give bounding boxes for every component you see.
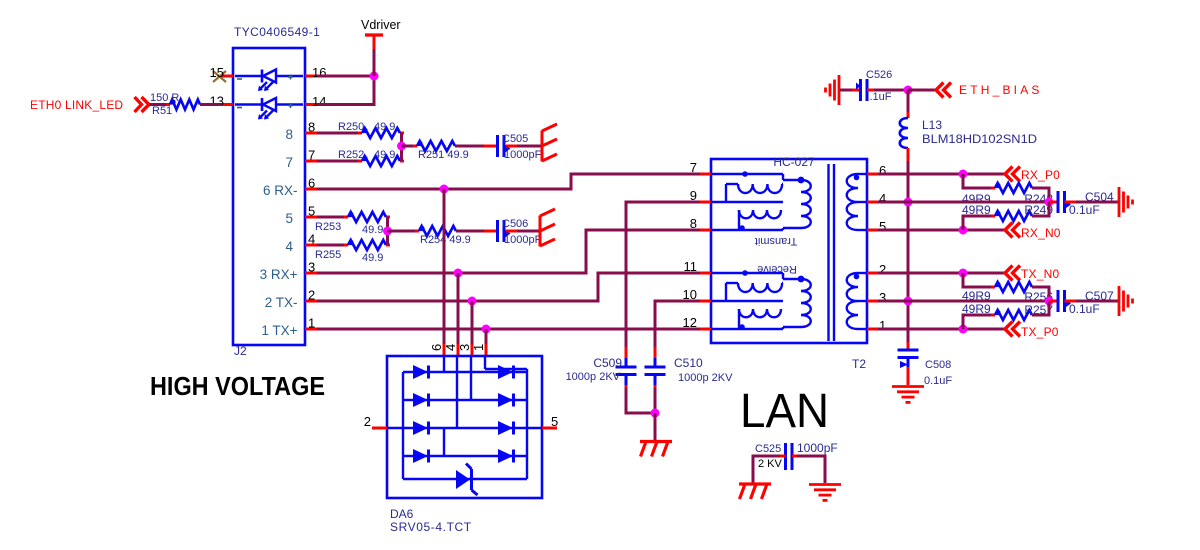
T2 pin 10 stub	[700, 300, 711, 303]
svg-text:1: 1	[471, 344, 486, 351]
T2 pin 4 right number	[879, 191, 886, 206]
svg-text:1000p 2KV: 1000p 2KV	[678, 372, 733, 384]
resistor R248	[991, 183, 1036, 193]
transformer T2 transmit winding	[711, 171, 811, 247]
transformer core lines	[829, 164, 835, 341]
pin 8 number	[308, 120, 315, 135]
svg-text:1 TX+: 1 TX+	[261, 323, 297, 338]
T2 pin 11 stub	[700, 272, 711, 275]
wire C510 bottom	[654, 385, 657, 413]
label R249	[1024, 203, 1053, 217]
label HC-027	[773, 155, 815, 169]
DA6 right diodes	[498, 365, 514, 463]
DA6 pin 2 number	[364, 414, 371, 429]
wire ground to C526	[840, 89, 860, 92]
DA6 pin 5 number	[551, 414, 558, 429]
svg-text:1000pF: 1000pF	[504, 149, 542, 161]
port chevron ETH_BIAS	[936, 83, 951, 98]
wire TX+ row	[317, 328, 700, 331]
junction C504	[1045, 198, 1054, 207]
port label TX_P0	[1021, 325, 1059, 339]
wire junction to L13	[907, 90, 910, 118]
wire R249 to pin4 line	[1032, 202, 1049, 216]
label R252 value 49.9	[374, 149, 395, 161]
DA6 internal rails	[387, 357, 542, 479]
wire C526 to junction	[867, 89, 908, 92]
svg-text:R51: R51	[152, 105, 172, 117]
pin 1 number	[308, 316, 315, 331]
DA6 pin 1 number	[471, 344, 486, 351]
junction bias bus pin4	[904, 198, 913, 207]
wire C525 right	[792, 456, 825, 483]
port chevron RX_P0	[1005, 167, 1020, 182]
label C525 2KV	[758, 458, 783, 470]
transformer T2 receive winding	[711, 263, 811, 330]
label C525	[755, 443, 781, 455]
J2 internal pin label 1 TX+	[261, 323, 297, 338]
label DA6	[390, 507, 414, 521]
svg-text:49.9: 49.9	[374, 149, 395, 161]
T2 pin 9 stub	[700, 201, 711, 204]
LED D1 internal line	[235, 75, 303, 78]
wire junction to R257	[963, 315, 995, 329]
wire junction up	[373, 49, 376, 76]
inductor L13	[900, 118, 908, 148]
T2 pin 8 stub	[700, 229, 711, 232]
svg-text:1: 1	[308, 316, 315, 331]
junction Vdriver	[370, 72, 379, 81]
wire pin16 to junction	[317, 75, 374, 78]
chassis ground C509/C510	[640, 442, 672, 457]
label TYC0406549-1	[234, 25, 320, 39]
transformer T2 body	[711, 159, 867, 343]
wire RX- row	[317, 174, 700, 189]
svg-text:C526: C526	[866, 69, 892, 81]
svg-text:7: 7	[285, 155, 293, 170]
label C507	[1085, 289, 1114, 303]
port chevron ETH0 LINK_LED	[135, 97, 150, 112]
pin 14 number	[312, 94, 326, 109]
LED D1	[258, 70, 276, 92]
text HIGH VOLTAGE	[150, 371, 325, 401]
J2 internal pin label 2 TX-	[265, 295, 298, 310]
wire DA6 pin6 vertical	[443, 189, 446, 357]
resistor R254	[415, 226, 460, 236]
pin 13 number	[210, 94, 224, 109]
svg-text:LAN: LAN	[740, 385, 829, 438]
svg-text:2: 2	[879, 262, 886, 277]
svg-text:11: 11	[684, 259, 698, 274]
pin 8 stub	[305, 132, 317, 135]
label BLM18HD102SN1D	[922, 132, 1037, 146]
capacitor C506	[498, 220, 511, 242]
polarity minus mark row13	[237, 107, 242, 109]
wire T2 pin4 to C504	[878, 201, 1054, 204]
label 150 R	[150, 92, 179, 104]
label C508 value 0.1uF	[924, 375, 952, 387]
svg-text:L13: L13	[922, 118, 942, 132]
wire T2 pin9 to C509	[626, 202, 700, 358]
no-connect X pin 15	[213, 71, 226, 82]
wire R253/R255 join	[386, 217, 389, 245]
pin 3 stub	[305, 272, 317, 275]
resistor R249	[991, 211, 1036, 221]
T2 pin 11 number	[684, 259, 698, 274]
polarity plus mark row16	[288, 75, 293, 80]
DA6 zener diode	[456, 464, 478, 496]
svg-text:5: 5	[879, 219, 886, 234]
svg-text:3: 3	[879, 290, 886, 305]
svg-text:C506: C506	[502, 218, 528, 230]
wire pin5 to R253	[317, 216, 348, 219]
wire T2 pin6 to RX_P0	[878, 173, 1005, 176]
wire R250/R252 join	[400, 133, 403, 161]
DA6 left diodes	[413, 365, 429, 463]
port chevron TX_N0	[1005, 266, 1020, 281]
label R257 value 49R9	[962, 302, 991, 316]
resistor R257	[991, 310, 1036, 320]
junction RX+ to DA6	[454, 269, 463, 278]
pin 6 stub	[305, 188, 317, 191]
label R248	[1024, 192, 1053, 206]
wire pin7 to R252	[317, 160, 362, 163]
pin 14 stub	[305, 103, 317, 106]
wire junction to R254	[388, 230, 420, 233]
svg-text:HIGH VOLTAGE: HIGH VOLTAGE	[150, 371, 325, 401]
junction RX_P0	[959, 170, 968, 179]
T2 pin 6 right number	[879, 163, 886, 178]
svg-text:BLM18HD102SN1D: BLM18HD102SN1D	[922, 132, 1037, 146]
svg-text:2 KV: 2 KV	[758, 458, 783, 470]
svg-text:6: 6	[429, 344, 444, 351]
svg-text:TYC0406549-1: TYC0406549-1	[234, 25, 320, 39]
svg-text:2: 2	[364, 414, 371, 429]
pin 16 stub	[305, 75, 317, 78]
T2 pin 6 right stub	[867, 173, 878, 176]
wire T2 pin10 to C510	[655, 301, 700, 358]
svg-text:ETH_BIAS: ETH_BIAS	[959, 83, 1043, 97]
wire R254 to C506	[456, 230, 497, 233]
transformer T2 secondary winding bottom	[847, 273, 867, 329]
label R251 49.9	[418, 149, 469, 161]
capacitor C504	[1049, 191, 1076, 213]
label R254 49.9	[420, 234, 471, 246]
diode array DA6 body	[387, 356, 542, 498]
text LAN	[740, 385, 829, 438]
svg-text:Receive: Receive	[757, 263, 797, 275]
resistor R253	[344, 212, 390, 222]
port chevron RX_N0	[1005, 223, 1020, 238]
svg-text:15: 15	[210, 65, 224, 80]
junction TX- to DA6	[468, 297, 477, 306]
port chevron TX_P0	[1005, 322, 1020, 337]
junction RX_N0	[959, 226, 968, 235]
earth ground C508	[892, 387, 924, 403]
T2 pin 2 right stub	[867, 272, 878, 275]
svg-text:4: 4	[308, 232, 315, 247]
T2 pin 7 number	[690, 160, 697, 175]
T2 pin 1 right stub	[867, 328, 878, 331]
wire T2 pin2 to TX_N0	[878, 272, 1005, 275]
svg-text:13: 13	[210, 94, 224, 109]
pin 1 stub	[305, 328, 317, 331]
label C504	[1085, 190, 1114, 204]
svg-text:1000p 2KV: 1000p 2KV	[566, 371, 621, 383]
T2 pin 4 right stub	[867, 201, 878, 204]
label C506	[502, 218, 528, 230]
label C526	[866, 69, 892, 81]
label C505	[502, 133, 528, 145]
junction ETH_BIAS	[904, 86, 913, 95]
svg-text:R252: R252	[338, 149, 364, 161]
J2 internal pin label 8	[285, 127, 293, 142]
svg-text:49R9: 49R9	[962, 302, 991, 316]
svg-text:1000pF: 1000pF	[504, 234, 542, 246]
junction C507	[1045, 297, 1054, 306]
pin 2 stub	[305, 300, 317, 303]
svg-text:6: 6	[879, 163, 886, 178]
resistor R51	[166, 99, 204, 109]
chassis ground C525	[739, 484, 771, 499]
svg-text:C510: C510	[674, 356, 703, 370]
port label RX_P0	[1021, 168, 1060, 182]
junction TX_P0	[959, 325, 968, 334]
svg-text:150 R: 150 R	[150, 92, 179, 104]
label C504 value 0.1uF	[1069, 203, 1100, 217]
label R253 value 49.9	[362, 224, 383, 236]
T2 pin 5 right number	[879, 219, 886, 234]
J2 internal pin label 6 RX-	[263, 183, 298, 198]
label C510 value 1000p 2KV	[678, 372, 733, 384]
port label TX_N0	[1021, 267, 1059, 281]
wire pin8 to R250	[317, 132, 362, 135]
svg-text:7: 7	[308, 148, 315, 163]
label R51	[152, 105, 172, 117]
wire port to R51	[150, 103, 171, 106]
wire T2 pin3 to C507	[878, 300, 1054, 303]
junction bias bus pin3	[904, 297, 913, 306]
chassis ground C505	[542, 124, 557, 162]
label Vdriver	[361, 18, 401, 32]
J2 internal pin label 4	[285, 239, 293, 254]
svg-text:49.9: 49.9	[362, 252, 383, 264]
power symbol Vdriver	[365, 35, 383, 49]
svg-text:ETH0 LINK_LED: ETH0 LINK_LED	[30, 98, 123, 112]
svg-text:DA6: DA6	[390, 507, 414, 521]
DA6 pin 2 stub	[372, 427, 387, 430]
svg-text:R250: R250	[338, 121, 364, 133]
svg-text:T2: T2	[852, 357, 866, 371]
LED D2 internal line	[235, 103, 303, 106]
polarity plus mark row14	[288, 103, 293, 108]
DA6 pin 5 stub	[542, 427, 557, 430]
J2 internal pin label 3 RX+	[260, 267, 298, 282]
capacitor C526	[856, 79, 867, 101]
label R257	[1024, 303, 1053, 317]
svg-text:14: 14	[312, 94, 326, 109]
svg-text:3: 3	[308, 260, 315, 275]
svg-text:8: 8	[308, 120, 315, 135]
svg-text:2: 2	[308, 288, 315, 303]
svg-text:5: 5	[308, 204, 315, 219]
wire junction to R249	[963, 216, 995, 230]
port label RX_N0	[1021, 226, 1061, 240]
label SRV05-4.TCT	[390, 520, 472, 534]
earth ground C525	[809, 485, 841, 501]
svg-text:49R9: 49R9	[962, 203, 991, 217]
label C526 value .1uF	[870, 91, 892, 103]
wire C509 bottom	[626, 385, 655, 413]
T2 pin 10 number	[683, 287, 697, 302]
J2 internal pin label 5	[285, 211, 293, 226]
svg-text:2 TX-: 2 TX-	[265, 295, 298, 310]
chassis ground C506	[540, 209, 555, 247]
wire L13 to bias bus	[907, 148, 910, 342]
wire C506 to ground	[506, 230, 540, 233]
pin 6 number	[308, 176, 315, 191]
svg-text:Transmit: Transmit	[755, 235, 797, 247]
svg-text:5: 5	[551, 414, 558, 429]
T2 pin 3 right stub	[867, 300, 878, 303]
svg-text:0.1uF: 0.1uF	[1069, 203, 1100, 217]
pin 5 stub	[305, 216, 317, 219]
wire RX+ row	[317, 230, 700, 273]
capacitor C525	[786, 443, 793, 470]
pin 4 stub	[305, 244, 317, 247]
pin 3 number	[308, 260, 315, 275]
junction C509/C510 ground	[651, 409, 660, 418]
svg-text:RX_P0: RX_P0	[1021, 168, 1060, 182]
wire C505 to ground	[506, 145, 542, 148]
DA6 pin 4 number	[443, 344, 458, 351]
wire DA6 pin1 vertical	[485, 329, 488, 357]
wire junction to R256	[963, 273, 995, 287]
wire T2 pin5 to RX_N0	[878, 229, 1005, 232]
svg-text:0.1uF: 0.1uF	[1069, 302, 1100, 316]
wire DA6 pin3 vertical	[471, 301, 474, 357]
label R250	[338, 121, 364, 133]
svg-text:3 RX+: 3 RX+	[260, 267, 298, 282]
wire junction to R251	[402, 145, 418, 148]
wire R256 to pin3 line	[1032, 287, 1049, 301]
wire C525 left	[753, 456, 786, 483]
label R255	[315, 249, 341, 261]
capacitor C505	[498, 135, 511, 157]
wire TX- row	[317, 273, 700, 301]
wire pin14 jog	[317, 76, 374, 105]
wire C507 to ground	[1076, 300, 1118, 303]
svg-text:8: 8	[285, 127, 293, 142]
svg-text:HC-027: HC-027	[773, 155, 815, 169]
svg-text:6 RX-: 6 RX-	[263, 183, 298, 198]
svg-text:R255: R255	[315, 249, 341, 261]
label R248 value 49R9	[962, 192, 991, 206]
pin 13 stub	[222, 103, 233, 106]
junction B	[383, 227, 392, 236]
T2 pin 7 stub	[700, 173, 711, 176]
label C525 value 1000pF	[797, 441, 838, 455]
capacitor C510	[645, 358, 666, 385]
polarity minus mark row15	[237, 78, 242, 80]
T2 pin 12 number	[683, 315, 697, 330]
svg-text:12: 12	[683, 315, 697, 330]
pin 7 stub	[305, 160, 317, 163]
junction TX+ to DA6	[482, 325, 491, 334]
port label ETH0 LINK_LED	[30, 98, 123, 112]
svg-text:C509: C509	[593, 356, 622, 370]
svg-text:4: 4	[285, 239, 293, 254]
svg-text:5: 5	[285, 211, 293, 226]
svg-text:7: 7	[690, 160, 697, 175]
svg-text:C525: C525	[755, 443, 781, 455]
resistor R256	[991, 282, 1036, 292]
LED D2	[258, 98, 276, 120]
pin 16 number	[312, 65, 326, 80]
svg-text:.1uF: .1uF	[870, 91, 892, 103]
svg-text:4: 4	[443, 344, 458, 351]
svg-text:TX_N0: TX_N0	[1021, 267, 1059, 281]
label J2	[234, 344, 247, 358]
wire C508 to ground	[907, 367, 910, 385]
label R252	[338, 149, 364, 161]
label T2	[852, 357, 866, 371]
wire R257 to pin3 line	[1032, 301, 1049, 315]
earth ground C526	[826, 75, 840, 105]
connector J2 TYC0406549-1 body	[233, 48, 305, 345]
label C509	[593, 356, 622, 370]
pin 15 stub	[220, 75, 233, 78]
wire C504 to ground	[1076, 201, 1118, 204]
T2 pin 1 right number	[879, 318, 886, 333]
earth ground C507	[1119, 286, 1133, 316]
label C507 value 0.1uF	[1069, 302, 1100, 316]
pin 15 number	[210, 65, 224, 80]
label R255 value 49.9	[362, 252, 383, 264]
svg-text:49.9: 49.9	[362, 224, 383, 236]
label R256	[1024, 290, 1053, 304]
svg-text:RX_N0: RX_N0	[1021, 226, 1061, 240]
label C506 value 1000pF	[504, 234, 542, 246]
label L13	[922, 118, 942, 132]
svg-text:1: 1	[879, 318, 886, 333]
transformer T2 secondary winding top	[847, 174, 867, 230]
T2 pin 5 right stub	[867, 229, 878, 232]
T2 pin 12 stub	[700, 328, 711, 331]
resistor R251	[413, 141, 459, 151]
label C510	[674, 356, 703, 370]
svg-text:TX_P0: TX_P0	[1021, 325, 1059, 339]
wire R248 to pin4 line	[1032, 188, 1049, 202]
svg-text:16: 16	[312, 65, 326, 80]
DA6 pin 6 number	[429, 344, 444, 351]
pin 7 number	[308, 148, 315, 163]
svg-text:Vdriver: Vdriver	[361, 18, 401, 32]
DA6 pin 3 number	[457, 344, 472, 351]
pin 5 number	[308, 204, 315, 219]
wire T2 pin1 to TX_P0	[878, 328, 1005, 331]
wire junction to R248	[963, 174, 995, 188]
label C509 value 1000p 2KV	[566, 371, 621, 383]
svg-text:J2: J2	[234, 344, 247, 358]
pin 2 number	[308, 288, 315, 303]
pin 4 number	[308, 232, 315, 247]
junction TX_N0	[959, 269, 968, 278]
T2 pin 2 right number	[879, 262, 886, 277]
label R249 value 49R9	[962, 203, 991, 217]
svg-text:R251 49.9: R251 49.9	[418, 149, 469, 161]
svg-text:SRV05-4.TCT: SRV05-4.TCT	[390, 520, 472, 534]
wire pin4 to R255	[317, 244, 348, 247]
